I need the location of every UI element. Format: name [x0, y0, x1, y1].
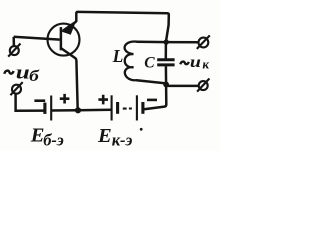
svg-text:E: E [97, 125, 112, 147]
svg-text:u: u [16, 61, 30, 82]
svg-text:б: б [29, 67, 40, 85]
svg-text:б-э: б-э [43, 130, 64, 149]
svg-text:к: к [202, 57, 209, 72]
svg-text:к-э: к-э [112, 131, 133, 150]
svg-text:u: u [190, 53, 201, 71]
svg-text:L: L [112, 46, 124, 66]
svg-text:C: C [144, 55, 155, 72]
